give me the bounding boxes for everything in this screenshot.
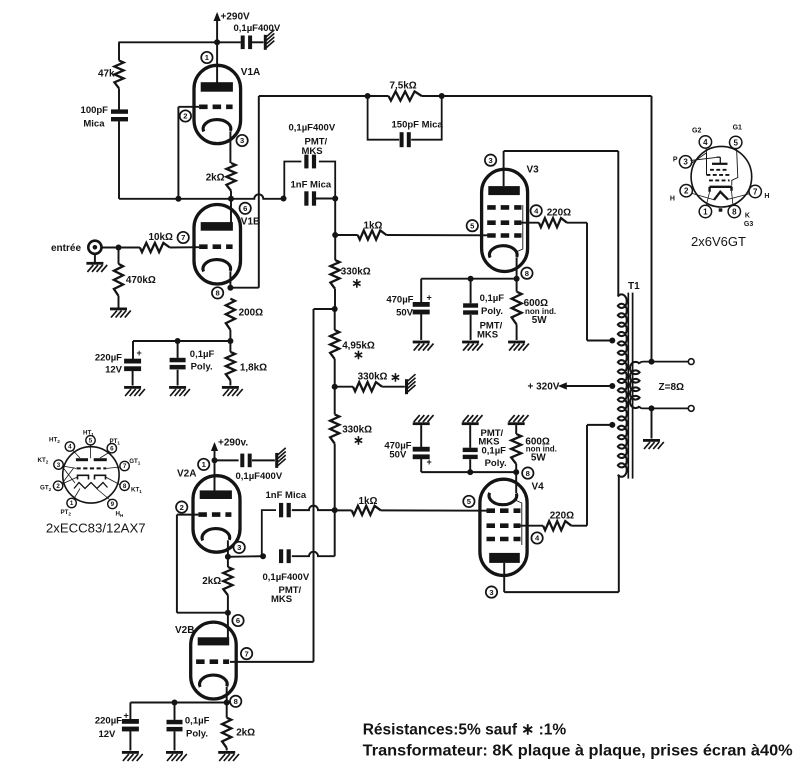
wire 1nF lower right [292, 506, 335, 510]
svg-text:0,1µF400V: 0,1µF400V [289, 123, 336, 134]
svg-text:Mica: Mica [83, 119, 105, 130]
svg-text:Poly.: Poly. [191, 362, 213, 373]
svg-text:3: 3 [683, 158, 688, 167]
wire 1k to V3 grid [386, 234, 489, 236]
wire chain c [334, 309, 336, 330]
wire V4 cathode rail [421, 471, 516, 473]
terminal output plus [688, 359, 694, 365]
svg-text:Transformateur: 8K plaque à pl: Transformateur: 8K plaque à plaque, pris… [363, 743, 793, 760]
resistor R 220 V4 [543, 511, 574, 531]
tube V1A cathode [203, 120, 231, 132]
label V4 [532, 482, 545, 493]
node V2B plate junction [225, 610, 231, 616]
tube V3 grid2 dashes [487, 220, 521, 225]
capacitor 220uF 12V lower [95, 711, 139, 740]
wire 0.1uF lead bottom [177, 370, 179, 386]
node V1A grid junction [175, 196, 181, 202]
svg-text:330kΩ: 330kΩ [358, 372, 388, 383]
wire V1B cathode lead [230, 271, 258, 288]
svg-text:10kΩ: 10kΩ [149, 232, 173, 243]
svg-text:2kΩ: 2kΩ [236, 727, 255, 738]
svg-text:220Ω: 220Ω [550, 511, 574, 522]
resistor R 600 V3 [512, 279, 557, 326]
svg-text:7: 7 [123, 463, 127, 470]
svg-text:0,1µF: 0,1µF [480, 293, 505, 304]
wire cap to chassis V2A [252, 459, 275, 461]
svg-text:8: 8 [234, 697, 238, 706]
svg-text:7,5kΩ: 7,5kΩ [390, 81, 417, 92]
label 2xECC83/12AX7 [46, 521, 146, 536]
pin 6 V1B [240, 203, 251, 214]
wire 220uF lead top [132, 341, 134, 359]
pin 6 V2B [232, 615, 243, 626]
resistor R 470k [114, 248, 156, 296]
wire 47k to 100pF [118, 88, 120, 109]
ground 0.1uF lower [166, 751, 187, 761]
wire chain b [334, 289, 336, 309]
tube V3 envelope [482, 169, 528, 271]
svg-text:Poly.: Poly. [481, 306, 503, 317]
tube V2A anode plate [200, 490, 232, 499]
tube V1B anode plate [201, 222, 233, 231]
wire 0.1uF lower right [292, 510, 335, 556]
capacitor 1nF Mica lower [266, 490, 307, 518]
tube V1B envelope [194, 205, 241, 285]
resistor R 330k lower [330, 414, 372, 447]
ground input jack [86, 262, 107, 272]
wire 0.1uF2 lead [174, 703, 176, 720]
svg-text:+290v.: +290v. [218, 438, 248, 449]
wire 220 V3 to tap [567, 223, 612, 341]
capacitor 470uF 50V V3 [386, 293, 431, 319]
wire 220uF2 lead [129, 703, 131, 720]
svg-text:8: 8 [732, 207, 737, 216]
pin 8 V2B [230, 696, 241, 707]
svg-text:50V: 50V [389, 450, 407, 461]
pin 3 V1A [236, 135, 247, 146]
diagram 2x6V6GT socket [670, 125, 770, 228]
svg-text:G2: G2 [692, 128, 701, 135]
svg-text:Poly.: Poly. [186, 728, 208, 739]
svg-text:V1B: V1B [241, 216, 260, 227]
chassis ground top right [264, 30, 275, 50]
pin 3 V3 [485, 155, 496, 166]
svg-text:1kΩ: 1kΩ [364, 220, 383, 231]
capacitor 0.1uF400V decoupling top [234, 23, 281, 49]
svg-text:2: 2 [180, 503, 184, 512]
resistor R 10k [140, 232, 173, 252]
wire V1B anode lead [230, 199, 232, 223]
capacitor 100pF Mica [81, 105, 128, 129]
resistor R 330k upper [330, 260, 370, 291]
resistor R 4.95k [330, 330, 375, 362]
resistor R 330k middle horizontal [335, 370, 401, 392]
svg-text:8: 8 [525, 269, 529, 278]
svg-text:entrée: entrée [51, 243, 81, 254]
wire cap to chassis top [252, 41, 264, 43]
pin 7 V2B [241, 648, 252, 659]
wire V2A cathode to caps [228, 555, 262, 558]
ground 470k [110, 308, 131, 318]
node V4 rail 0.1uF [467, 469, 473, 475]
node V3 cathode junction [514, 276, 520, 282]
svg-text:+: + [427, 457, 432, 467]
svg-text:+: + [427, 293, 432, 303]
label V3 [527, 164, 540, 175]
tube V2A envelope [193, 476, 240, 552]
svg-text:1nF Mica: 1nF Mica [291, 180, 332, 191]
capacitor 0.1uF Poly upper [170, 349, 215, 373]
resistor R 2k upper [206, 163, 236, 191]
svg-text:K: K [745, 213, 750, 220]
svg-text:5: 5 [733, 138, 738, 147]
node +290V junction [214, 39, 220, 45]
wire V2B anode lead [227, 613, 229, 638]
svg-text:1: 1 [703, 207, 708, 216]
svg-text:+290V: +290V [221, 12, 251, 23]
wire cathode RC rail [133, 340, 230, 342]
tube V4 anode plate [489, 553, 520, 563]
pin 1 V1A [201, 52, 212, 63]
node fb left [365, 93, 371, 99]
svg-text:∗: ∗ [353, 433, 364, 448]
svg-text:8: 8 [123, 483, 127, 490]
label V1B [241, 216, 260, 227]
svg-text:3: 3 [57, 462, 61, 469]
label T1 [628, 281, 640, 292]
capacitor 0.1uF400V V2A [215, 454, 283, 483]
wire 1k to V4 grid [381, 509, 488, 511]
inductor T1 primary winding [618, 294, 627, 476]
svg-text:220µF: 220µF [95, 715, 122, 726]
tube V1A anode plate [201, 82, 233, 92]
wire 150pF bracket [368, 96, 442, 140]
svg-text:H: H [764, 193, 769, 200]
tube V1A grid dashes [199, 105, 233, 110]
svg-text:∗: ∗ [390, 370, 401, 385]
svg-text:V2B: V2B [175, 625, 194, 636]
wire chain e [334, 387, 336, 415]
svg-text:2: 2 [56, 483, 60, 490]
ground 0.1uF upper [169, 386, 190, 396]
svg-text:3: 3 [489, 588, 493, 597]
svg-text:7: 7 [753, 187, 758, 196]
wire 470k to ground [118, 296, 120, 308]
svg-text:470µF: 470µF [386, 295, 413, 306]
svg-text:1nF Mica: 1nF Mica [266, 490, 307, 501]
svg-text:3: 3 [240, 136, 244, 145]
tube V1A envelope [194, 65, 241, 143]
tube V4 grid2 dashes [487, 523, 521, 528]
wire V1A cathode lead [229, 131, 231, 163]
resistor R 220 V3 [539, 207, 571, 227]
wire V2A grid lead [177, 515, 228, 613]
svg-text:5W: 5W [531, 452, 546, 463]
wire 200 to rail [229, 330, 231, 341]
wire node to 1k junction [334, 199, 336, 236]
svg-text:+: + [137, 348, 142, 358]
tube V4 beam line [515, 500, 522, 545]
resistor R 200 [226, 299, 263, 330]
tube V2B grid dashes [196, 659, 229, 664]
svg-text:4: 4 [703, 138, 708, 147]
tube V4 envelope [480, 479, 527, 575]
node T1 center tap [609, 383, 615, 389]
wire V3 cathode lead [516, 257, 518, 278]
svg-text:1,8kΩ: 1,8kΩ [240, 362, 267, 373]
wire 2k V2B bottom [226, 748, 228, 751]
pin 7 V1B [178, 232, 189, 243]
svg-text:1: 1 [70, 500, 74, 507]
wire 220 V4 to tap [571, 425, 611, 526]
svg-text:3: 3 [488, 156, 492, 165]
node coupling right [332, 196, 338, 202]
wire 470uF3 lead [420, 279, 422, 303]
tube V2B envelope [191, 622, 237, 699]
node rail 0.1uF [175, 338, 181, 344]
node secondary top [649, 359, 655, 365]
wire feedback horizontal y96 [259, 95, 652, 97]
wire secondary ground lead [651, 408, 653, 438]
svg-text:V1A: V1A [241, 67, 260, 78]
svg-text:47k: 47k [98, 69, 115, 80]
ground 1.8k [222, 386, 243, 396]
svg-text:100pF: 100pF [81, 105, 109, 116]
svg-text:P: P [673, 156, 678, 163]
node rail 1.8k [227, 338, 233, 344]
svg-text:3: 3 [237, 543, 241, 552]
svg-text:Poly.: Poly. [485, 458, 507, 469]
label entree [51, 243, 81, 254]
pin 4 V3 [531, 205, 542, 216]
node 1k lower junction [332, 507, 338, 513]
pin 4 V4 [531, 532, 542, 543]
label V1A [241, 67, 260, 78]
wire 470uF4 lead [420, 425, 422, 447]
wire V1A anode lead [216, 42, 218, 83]
svg-text:V4: V4 [532, 482, 545, 493]
tube V3 anode plate [488, 186, 520, 195]
svg-text:8: 8 [526, 469, 530, 478]
wire 0.1uF lead top [177, 341, 179, 358]
pin 8 V3 [521, 268, 532, 279]
node lower bracket left [260, 553, 266, 559]
svg-text:2x6V6GT: 2x6V6GT [691, 234, 746, 249]
svg-text:G3: G3 [744, 221, 753, 228]
ground 470uF V3 [413, 341, 434, 351]
pin 8 V4 [522, 467, 533, 478]
svg-text:470kΩ: 470kΩ [126, 275, 156, 286]
wire 2k to node [230, 191, 232, 199]
wire jack to 10k [102, 247, 140, 249]
node secondary bottom [649, 405, 655, 411]
svg-text:0,1µF400V: 0,1µF400V [263, 572, 310, 583]
node coupling left [281, 196, 287, 202]
svg-text:Z=8Ω: Z=8Ω [659, 382, 685, 393]
wire 220uF2 bottom [129, 730, 131, 750]
tube V2A grid dashes [198, 512, 231, 517]
svg-text:0,1µF400V: 0,1µF400V [236, 471, 283, 482]
wire secondary top tap [640, 362, 689, 364]
wire V2A anode lead [214, 460, 216, 492]
svg-text:0,1µF: 0,1µF [482, 446, 507, 457]
svg-text:MKS: MKS [271, 594, 292, 605]
pin 2 V2A [176, 501, 187, 512]
note transformateur [363, 743, 793, 760]
svg-text:150pF Mica: 150pF Mica [392, 120, 444, 131]
wire +290V rail horizontal [118, 41, 240, 43]
inductor T1 secondary winding [630, 362, 640, 408]
svg-text:2kΩ: 2kΩ [206, 172, 225, 183]
svg-text:0,1µF: 0,1µF [185, 715, 210, 726]
svg-text:7: 7 [181, 233, 185, 242]
resistor R 2k V2B cathode [222, 703, 255, 748]
resistor R 1.8k [226, 341, 267, 380]
pin 3 V2A [234, 542, 245, 553]
ground 600 V4 top [508, 415, 529, 425]
svg-text:+: + [124, 711, 129, 721]
svg-text:7: 7 [244, 649, 248, 658]
label 2x6V6GT [691, 234, 746, 249]
ground 0.1uF V3 [462, 341, 483, 351]
wire 0.1uF4 lead [469, 425, 471, 448]
wire feedback vertical left [258, 96, 260, 288]
svg-text:V3: V3 [527, 164, 540, 175]
svg-text:2: 2 [183, 112, 187, 121]
tube V1B grid dashes [199, 244, 233, 249]
wire 220uF lead bottom [132, 370, 134, 386]
svg-text:50V: 50V [396, 307, 414, 318]
chassis ground 330k middle [405, 374, 416, 394]
tube V4 grid1 dashes [487, 508, 521, 513]
svg-text:1kΩ: 1kΩ [359, 496, 378, 507]
capacitor 470uF 50V V4 [384, 441, 431, 468]
node T1 tap screen V3 [609, 338, 615, 344]
wire feedback corner [651, 96, 653, 362]
svg-text:2: 2 [684, 187, 689, 196]
node input junction [116, 245, 122, 251]
capacitor 0.1uF Poly lower [167, 715, 210, 739]
svg-text:220µF: 220µF [95, 353, 122, 364]
svg-text:T1: T1 [628, 281, 640, 292]
wire V3 cathode rail [421, 278, 516, 280]
label Z=8 [659, 382, 685, 393]
tube V3 grid3 dashes [487, 233, 521, 238]
wire V3 plate lead [504, 151, 619, 186]
svg-text:6: 6 [236, 616, 240, 625]
wire tap to V2B grid [230, 309, 335, 662]
wire 0.1uF2 bottom [174, 732, 176, 751]
resistor R 7.5k [389, 81, 422, 101]
wire left bus lower [118, 121, 120, 199]
ground 220uF lower [122, 751, 143, 761]
svg-text:G1: G1 [733, 125, 742, 132]
wire 2k V2 to node [227, 595, 229, 613]
core T1 lamination [628, 293, 632, 479]
node chain mid2 [332, 384, 338, 390]
wire 1nF right to node [316, 198, 335, 200]
svg-text:8: 8 [215, 289, 219, 298]
capacitor 0.1uF400V lower [263, 549, 310, 605]
wire 600 V4 bottom [515, 464, 517, 472]
wire 470uF4 bottom [420, 458, 422, 472]
label V2A [177, 469, 196, 480]
wire V3 screen lead [522, 222, 539, 224]
ground 2k V2B [218, 751, 239, 761]
wire bracket upper caps [284, 162, 335, 199]
ground 470uF V4 top [413, 415, 434, 425]
label V2B [175, 625, 194, 636]
capacitor 220uF 12V upper [95, 348, 142, 375]
node V2B cathode junction [224, 700, 230, 706]
diagram 2xECC83 socket [38, 430, 143, 519]
tube V2B anode plate [198, 637, 230, 645]
ground 600 V3 [508, 341, 529, 351]
resistor R 600 V4 [511, 425, 557, 464]
wire 600 V3 bottom [516, 325, 518, 341]
tube V3 cathode [489, 246, 517, 258]
svg-text:6: 6 [110, 445, 114, 452]
wire V2B cathode rail [130, 702, 226, 704]
node V4 cathode junction [513, 469, 519, 475]
node V1B cathode junction [227, 285, 233, 291]
svg-text:+ 320V: + 320V [528, 382, 560, 393]
node fb right [439, 93, 445, 99]
wire bracket lower caps [262, 510, 276, 556]
node V2A cathode junction [225, 554, 231, 560]
svg-text:∗: ∗ [351, 276, 362, 291]
svg-text:V2A: V2A [177, 469, 196, 480]
wire V4 cathode lead [515, 472, 517, 493]
resistor R 1k lower [335, 496, 381, 515]
resistor R 2k V2 [202, 567, 232, 595]
tube V4 grid3 dashes [487, 537, 521, 542]
node 1k upper junction [332, 232, 338, 238]
node V1B plate junction [228, 196, 234, 202]
svg-text:12V: 12V [105, 365, 123, 376]
svg-text:0,1µF: 0,1µF [190, 349, 215, 360]
svg-text:∗: ∗ [353, 347, 364, 362]
wire 0.1uF3 bottom [470, 315, 472, 340]
wire V4 screen lead [521, 525, 544, 527]
ground secondary [643, 439, 664, 449]
tube V1B cathode [203, 260, 231, 272]
capacitor 0.1uF400V PMT/MKS upper [289, 123, 336, 169]
wire chain d [334, 359, 336, 387]
wire center tap +320V [528, 382, 613, 393]
capacitor 1nF Mica upper [291, 180, 332, 206]
pin 5 V3 [467, 220, 478, 231]
wire 10k to grid [170, 246, 199, 248]
wire chain f [334, 444, 336, 511]
svg-text:Résistances:5% sauf ∗ :1%: Résistances:5% sauf ∗ :1% [363, 722, 567, 739]
svg-text:2xECC83/12AX7: 2xECC83/12AX7 [46, 521, 146, 536]
svg-text:2kΩ: 2kΩ [202, 576, 221, 587]
svg-text:12V: 12V [98, 729, 116, 740]
ground 220uF upper [124, 386, 145, 396]
svg-text:0,1µF400V: 0,1µF400V [234, 23, 281, 34]
node V2A plate junction [212, 457, 218, 463]
wire V2A cathode lead [227, 540, 229, 567]
wire 0.1uF4 bottom [469, 459, 471, 472]
wire jack ground lead [94, 254, 96, 262]
tube V2A cathode [202, 529, 230, 541]
pin 2 V1A [180, 110, 191, 121]
wire 0.1uF3 lead [470, 279, 472, 304]
ground 0.1uF V4 top [462, 415, 483, 425]
resistor R 1k upper [358, 220, 387, 239]
capacitor 0.1uF Poly V3 [463, 293, 504, 340]
